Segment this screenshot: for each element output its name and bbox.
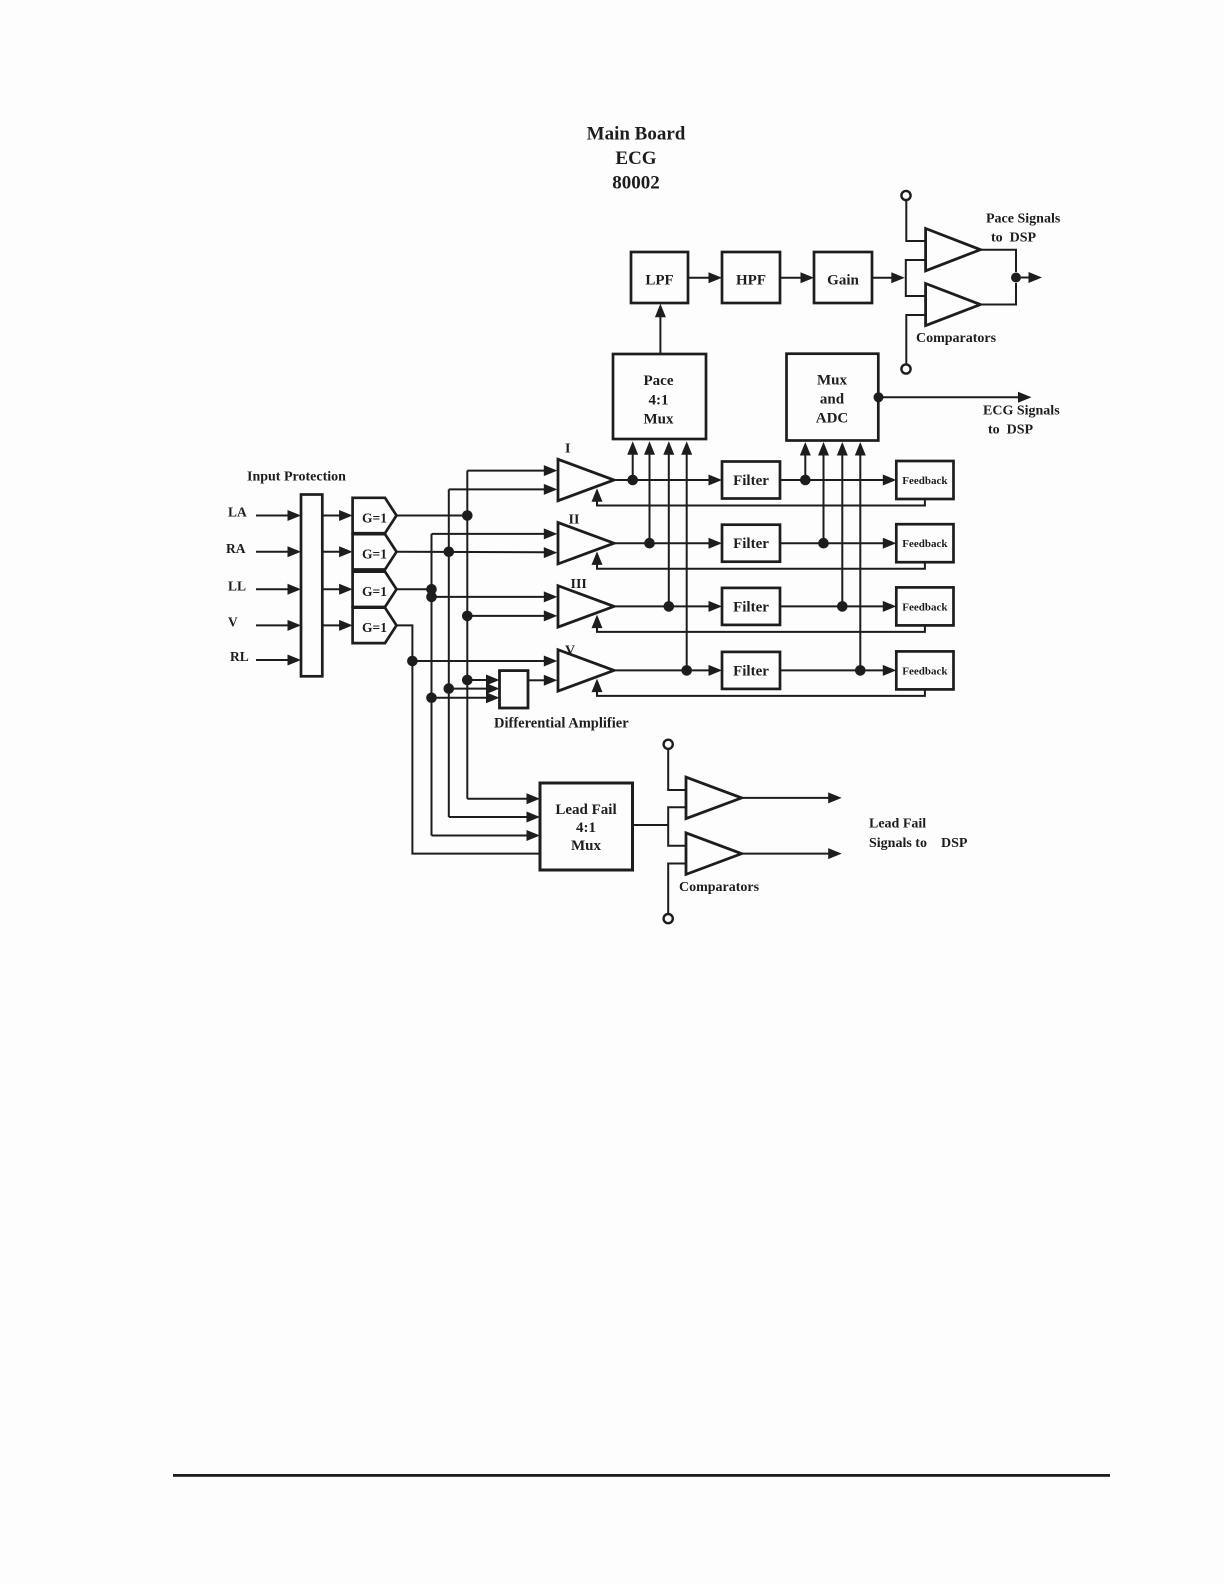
block Filter 4 xyxy=(722,652,780,689)
differential amplifier U4 xyxy=(500,671,529,708)
label lead II xyxy=(569,513,580,528)
wire pace mux output to LPF xyxy=(655,304,666,354)
wire RA buffer output to amplifier II lower input xyxy=(397,547,558,558)
wire LL to amplifier III upper input xyxy=(432,591,558,602)
block Gain xyxy=(814,252,872,303)
svg-text:G=1: G=1 xyxy=(362,620,387,635)
node junction B2 xyxy=(818,538,829,549)
terminal pace comparator reference top xyxy=(901,191,910,200)
wire filter 2 to junction B2 xyxy=(780,542,824,544)
node V junction xyxy=(407,656,418,667)
svg-text:4:1: 4:1 xyxy=(649,392,669,408)
wire LL to differential amplifier input 3 xyxy=(432,692,500,703)
wire filter 1 to junction B1 xyxy=(780,479,805,481)
svg-text:Pace Signals: Pace Signals xyxy=(986,212,1061,227)
svg-text:Lead Fail: Lead Fail xyxy=(555,802,616,818)
comparator U3 (pace lower) xyxy=(926,284,981,326)
svg-text:Differential Amplifier: Differential Amplifier xyxy=(494,716,629,732)
label electrode V xyxy=(228,614,238,629)
node junction A3 xyxy=(664,601,675,612)
wire protection to buffer 2 xyxy=(322,546,352,557)
svg-text:ECG Signals: ECG Signals xyxy=(983,404,1060,419)
svg-text:Feedback: Feedback xyxy=(902,601,948,613)
svg-text:Filter: Filter xyxy=(733,536,769,552)
wire electrode V input xyxy=(256,620,301,631)
node pace output junction xyxy=(1011,273,1021,283)
node mux adc output junction xyxy=(874,392,884,402)
wire Gain to comparators xyxy=(872,272,905,283)
block Feedback 2 xyxy=(896,524,953,562)
svg-text:Signals to DSP: Signals to DSP xyxy=(869,836,968,851)
wire LA to differential amplifier input 1 xyxy=(467,675,499,686)
block input protection network xyxy=(301,495,322,677)
label Comparators (lead fail) xyxy=(679,880,760,895)
amplifier triangle lead I xyxy=(558,459,614,500)
svg-text:Feedback: Feedback xyxy=(902,538,948,550)
wire junction B2 up to mux adc xyxy=(818,442,829,543)
block LPF xyxy=(631,252,688,303)
svg-text:Mux: Mux xyxy=(817,373,848,389)
node LA junction xyxy=(462,510,473,521)
svg-text:80002: 80002 xyxy=(612,173,660,194)
svg-text:HPF: HPF xyxy=(736,273,766,289)
wire RA vertical bus xyxy=(448,489,450,817)
label Differential Amplifier xyxy=(494,716,629,732)
wire RA to lead fail mux input 2 xyxy=(449,812,540,823)
amplifier triangle lead V xyxy=(558,650,614,691)
block Feedback 4 xyxy=(896,651,953,689)
wire LA to amplifier I upper input xyxy=(467,465,557,476)
wire junction A4 to filter 4 xyxy=(687,665,722,676)
svg-text:RA: RA xyxy=(226,541,246,556)
buffer G=1 #4 xyxy=(353,608,397,643)
wire comparator U3 output xyxy=(980,283,1016,305)
svg-text:LPF: LPF xyxy=(645,273,673,289)
svg-text:to DSP: to DSP xyxy=(991,231,1037,246)
wire top terminal to comparator U2 noninverting input xyxy=(906,200,924,241)
wire comparator U6 output to DSP xyxy=(742,848,842,859)
node LL junction diff amp xyxy=(426,693,437,704)
svg-text:G=1: G=1 xyxy=(362,547,387,562)
svg-text:V: V xyxy=(228,614,238,629)
wire ECG signals to DSP arrow xyxy=(883,392,1032,403)
svg-text:Input Protection: Input Protection xyxy=(247,469,346,484)
svg-text:II: II xyxy=(569,513,580,528)
wire comparator U5 output to DSP xyxy=(742,792,842,803)
wire junction B2 to feedback 2 xyxy=(824,538,897,549)
block Feedback 1 xyxy=(896,461,953,499)
svg-text:Lead Fail: Lead Fail xyxy=(869,817,926,832)
wire pace signals to DSP arrow xyxy=(1021,272,1042,283)
node RA junction diff amp xyxy=(444,683,455,694)
wire bottom terminal to comparator U3 inverting input xyxy=(906,315,924,364)
wire LA vertical bus xyxy=(466,471,468,799)
svg-text:and: and xyxy=(820,392,845,408)
node junction A2 xyxy=(644,538,655,549)
wire filter 4 to junction B4 xyxy=(780,669,860,671)
wire LL buffer output xyxy=(397,588,432,590)
label lead I xyxy=(565,442,570,457)
amplifier triangle lead II xyxy=(558,523,614,564)
wire junction B4 to feedback 4 xyxy=(860,665,896,676)
svg-text:Comparators: Comparators xyxy=(916,331,997,346)
wire LA to lead fail mux input 1 xyxy=(467,793,540,804)
svg-text:Mux: Mux xyxy=(571,838,602,854)
block Lead Fail 4:1 Mux xyxy=(540,783,633,870)
terminal lead fail reference top xyxy=(664,740,673,749)
wire junction A3 up to pace mux xyxy=(663,441,674,606)
svg-text:G=1: G=1 xyxy=(362,510,387,525)
buffer G=1 #3 xyxy=(353,572,397,607)
wire top terminal to comparator U5 input xyxy=(668,749,685,790)
svg-text:LA: LA xyxy=(228,505,247,520)
label Lead Fail Signals to DSP xyxy=(869,817,968,852)
label electrode LA xyxy=(228,505,247,520)
wire junction A2 up to pace mux xyxy=(644,441,655,543)
buffer G=1 #2 xyxy=(353,534,397,569)
terminal lead fail reference bottom xyxy=(664,914,673,923)
label electrode LL xyxy=(228,578,246,593)
label lead V xyxy=(565,644,575,659)
wire feedback 3 return loop xyxy=(592,615,925,632)
wire lead fail mux output bracket xyxy=(633,807,686,846)
wire amplifier III output to junction xyxy=(614,605,669,607)
node junction B1 xyxy=(800,475,811,486)
svg-text:Filter: Filter xyxy=(733,663,769,679)
wire gain output bracket to comparator inputs xyxy=(906,260,925,296)
wire filter 3 to junction B3 xyxy=(780,605,842,607)
node junction A1 xyxy=(627,475,638,486)
wire LL to amplifier II upper input xyxy=(432,528,558,539)
buffer G=1 #1 xyxy=(353,498,397,533)
block Feedback 3 xyxy=(896,587,953,625)
wire LL to lead fail mux input 3 xyxy=(432,830,541,841)
node LA junction diff amp xyxy=(462,675,473,686)
wire V buffer output elbow xyxy=(397,625,413,661)
label electrode RA xyxy=(226,541,246,556)
block Filter 1 xyxy=(722,462,780,499)
wire V to lead fail mux input 4 xyxy=(412,661,540,854)
node LL junction xyxy=(426,584,437,595)
wire RA to differential amplifier input 2 xyxy=(449,683,500,694)
wire electrode RL input xyxy=(256,655,301,666)
wire junction B3 up to mux adc xyxy=(837,442,848,606)
svg-text:Main Board: Main Board xyxy=(587,124,686,145)
terminal pace comparator reference bottom xyxy=(901,364,910,373)
wire LPF to HPF xyxy=(688,272,722,283)
label Input Protection xyxy=(247,469,346,484)
wire LA to amplifier III lower input xyxy=(467,610,557,621)
label electrode RL xyxy=(230,649,249,664)
node LA junction lead III xyxy=(462,611,473,622)
wire junction A4 up to pace mux xyxy=(681,441,692,670)
wire comparator U2 output xyxy=(980,250,1016,272)
svg-text:Comparators: Comparators xyxy=(679,880,760,895)
title Main Board ECG 80002 xyxy=(587,124,686,194)
svg-text:I: I xyxy=(565,442,570,457)
wire LA buffer output xyxy=(397,515,468,517)
svg-text:ADC: ADC xyxy=(816,411,849,427)
label lead III xyxy=(571,577,587,592)
wire feedback 1 return loop xyxy=(592,488,925,505)
svg-text:Filter: Filter xyxy=(733,473,769,489)
svg-text:to DSP: to DSP xyxy=(988,423,1034,438)
svg-text:III: III xyxy=(571,577,587,592)
svg-text:4:1: 4:1 xyxy=(576,820,596,836)
wire bottom terminal to comparator U6 input xyxy=(668,864,685,914)
footer rule xyxy=(173,1474,1110,1477)
wire electrode LL input xyxy=(256,584,301,595)
label Comparators (pace) xyxy=(916,331,997,346)
svg-text:Feedback: Feedback xyxy=(902,475,948,487)
wire junction B3 to feedback 3 xyxy=(842,601,896,612)
svg-text:Gain: Gain xyxy=(827,273,859,289)
wire electrode RA input xyxy=(256,546,301,557)
node junction B3 xyxy=(837,601,848,612)
comparator U2 (pace upper) xyxy=(926,229,981,271)
node junction A4 xyxy=(681,665,692,676)
wire LL vertical bus xyxy=(431,534,433,836)
wire feedback 2 return loop xyxy=(592,551,925,568)
svg-text:RL: RL xyxy=(230,649,249,664)
wire V to amplifier V upper input xyxy=(412,656,557,667)
block Filter 2 xyxy=(722,525,780,562)
label Pace Signals to DSP xyxy=(986,212,1061,246)
wire HPF to Gain xyxy=(780,272,814,283)
block HPF xyxy=(722,252,780,303)
wire junction A1 up to pace mux xyxy=(627,441,638,480)
wire amplifier I output to junction xyxy=(614,479,633,481)
svg-text:V: V xyxy=(565,644,575,659)
comparator U6 (lead fail lower) xyxy=(686,833,742,875)
wire amplifier V output to junction xyxy=(614,669,687,671)
wire differential amplifier output to amplifier V lower input xyxy=(528,675,557,686)
svg-text:Filter: Filter xyxy=(733,599,769,615)
node junction B4 xyxy=(855,665,866,676)
wire junction B4 up to mux adc xyxy=(855,442,866,670)
wire junction A1 to filter 1 xyxy=(633,475,722,486)
wire amplifier II output to junction xyxy=(614,542,650,544)
svg-text:LL: LL xyxy=(228,578,246,593)
block Mux and ADC xyxy=(787,354,879,441)
label ECG Signals to DSP xyxy=(983,404,1060,438)
wire feedback 4 return loop xyxy=(592,679,925,696)
amplifier triangle lead III xyxy=(558,586,614,627)
wire protection to buffer 1 xyxy=(322,510,352,521)
wire junction B1 to feedback 1 xyxy=(805,475,896,486)
svg-text:Pace: Pace xyxy=(644,373,674,389)
wire junction B1 up to mux adc xyxy=(800,442,811,480)
svg-text:Feedback: Feedback xyxy=(902,665,948,677)
block Pace 4:1 Mux xyxy=(613,354,706,439)
wire RA to amplifier I lower input xyxy=(449,484,558,495)
wire electrode LA input xyxy=(256,510,301,521)
svg-text:ECG: ECG xyxy=(615,148,656,169)
wire junction A2 to filter 2 xyxy=(650,538,723,549)
svg-text:Mux: Mux xyxy=(644,412,675,428)
wire protection to buffer 3 xyxy=(322,584,352,595)
wire protection to buffer 4 xyxy=(322,620,352,631)
comparator U5 (lead fail upper) xyxy=(686,777,742,818)
node LL junction lead III xyxy=(426,592,437,603)
wire junction A3 to filter 3 xyxy=(669,601,722,612)
block Filter 3 xyxy=(722,588,780,625)
node RA junction xyxy=(444,547,455,558)
svg-text:G=1: G=1 xyxy=(362,584,387,599)
